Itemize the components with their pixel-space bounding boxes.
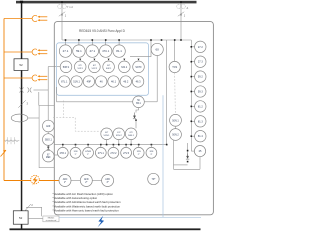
svg-text:47.1: 47.1	[89, 49, 95, 53]
function 81.4	[191, 131, 207, 142]
remote 52 breaker box	[13, 211, 28, 224]
function 59.1	[73, 45, 85, 57]
arrow up on VT2 wire	[180, 13, 182, 16]
svg-text:51N.1: 51N.1	[73, 81, 80, 84]
svg-text:2: 2	[31, 204, 33, 207]
voltage transformer T2	[177, 4, 186, 16]
close symbol	[186, 154, 189, 160]
svg-text:27.1: 27.1	[63, 49, 69, 53]
function 46	[96, 76, 107, 87]
function 27.1	[59, 45, 71, 57]
function AFD.1	[59, 175, 71, 187]
function SOTF	[133, 61, 145, 73]
svg-text:1*: 1*	[87, 154, 89, 156]
function AFD.3	[102, 175, 114, 187]
svg-text:AFD: AFD	[84, 178, 89, 181]
orange arrow at arrester	[1, 150, 7, 157]
svg-text:AFD: AFD	[63, 178, 68, 181]
wire voltage header bus	[62, 39, 191, 41]
function 60	[151, 43, 163, 55]
function AFD.2	[80, 175, 92, 187]
function 47.1	[86, 45, 98, 57]
bottom row stubs	[63, 145, 152, 148]
wire long vertical mid	[166, 40, 168, 145]
blue group box rows 1-3	[57, 43, 149, 96]
current transformer CT1 on feeder	[20, 88, 49, 106]
function TCS	[169, 61, 180, 72]
svg-text:1*: 1*	[64, 182, 66, 184]
function HIZ	[43, 120, 55, 132]
svg-text:67/: 67/	[79, 65, 82, 67]
function 27.3	[191, 56, 207, 67]
function 50N.2	[170, 129, 182, 141]
svg-text:81.1: 81.1	[116, 49, 122, 53]
arc flash lightning sensor	[31, 175, 40, 185]
node VT2 tap	[180, 1, 182, 3]
arc sensor S1	[4, 16, 47, 22]
sync close group wires	[174, 140, 201, 169]
function 50N.1	[170, 114, 182, 126]
function 50P.1	[60, 61, 72, 73]
svg-text:67/: 67/	[117, 132, 120, 134]
wire CT to relay row2	[48, 66, 60, 68]
function 27V.3	[121, 147, 132, 158]
wire right column spine	[190, 40, 192, 151]
svg-text:SOTF: SOTF	[135, 66, 142, 69]
voltage transformer T1	[58, 4, 67, 16]
nodes at sync group	[187, 150, 189, 152]
wire oval to sensor box	[28, 117, 39, 119]
bottom remote busbar	[10, 228, 201, 230]
function 67 MEF	[43, 150, 55, 162]
svg-text:2*: 2*	[138, 154, 140, 156]
svg-text:51P.1: 51P.1	[77, 68, 83, 70]
svg-text:50N.1: 50N.1	[128, 135, 135, 137]
surge arrester symbol	[5, 137, 20, 144]
function 50BF.1	[133, 96, 145, 108]
function 67 51N.2	[113, 128, 125, 140]
svg-text:AFD: AFD	[105, 178, 110, 181]
svg-text:HIZ: HIZ	[46, 124, 51, 128]
svg-text:27.2: 27.2	[198, 46, 203, 49]
function 59.3	[191, 86, 207, 97]
function SBO.1	[43, 134, 55, 146]
wire header drop left of 60	[130, 40, 151, 57]
function M2.1	[119, 61, 131, 73]
orange wire to AFD.1	[4, 180, 59, 182]
function 67 51P.2	[89, 61, 101, 73]
row1 stubs and nodes	[66, 40, 120, 45]
svg-text:46.2: 46.2	[123, 80, 129, 84]
wire VT2 drop	[180, 3, 182, 40]
wire 52 to remote label	[28, 218, 43, 220]
lower bus nodes	[62, 144, 168, 146]
function 27R.1	[57, 147, 68, 158]
trip symbol at sensor group	[47, 145, 50, 149]
svg-text:BF.1: BF.1	[136, 103, 141, 105]
svg-text:Y n d: Y n d	[67, 6, 73, 9]
function 67 51N.1	[101, 128, 113, 140]
arc sensor S2	[4, 49, 47, 55]
node VT1 tap	[61, 1, 63, 3]
function 59.2	[191, 71, 207, 82]
svg-text:81.2: 81.2	[198, 105, 203, 108]
svg-text:52: 52	[19, 63, 23, 67]
top busbar	[16, 1, 197, 4]
svg-text:59.1: 59.1	[76, 49, 82, 53]
function 32N.1	[70, 147, 81, 158]
svg-text:27R.1: 27R.1	[60, 152, 67, 155]
52 breaker box	[14, 59, 28, 71]
svg-text:RED615 V5.0 ANSI Func Appl D: RED615 V5.0 ANSI Func Appl D	[79, 29, 126, 33]
svg-text:2*: 2*	[85, 182, 87, 184]
svg-text:1*: 1*	[75, 154, 77, 156]
svg-text:51N.2: 51N.2	[116, 135, 123, 137]
svg-text:67/: 67/	[105, 132, 108, 134]
svg-text:81.3: 81.3	[198, 120, 203, 123]
svg-text:59.3: 59.3	[198, 91, 203, 94]
function 46.2	[120, 76, 131, 87]
wire VT1 drop	[61, 3, 63, 40]
arrow up on VT1 wire	[61, 13, 63, 16]
function 27V.2	[108, 147, 119, 158]
svg-text:46.3: 46.3	[136, 80, 142, 84]
svg-text:49F: 49F	[87, 80, 92, 84]
dashed wire blue box drop	[63, 101, 65, 118]
relay IED box RED615	[54, 22, 213, 215]
svg-text:1: 1	[184, 15, 186, 18]
wire CT secondary vertical	[47, 67, 49, 151]
feeder line	[21, 3, 23, 230]
svg-text:67/: 67/	[107, 65, 110, 67]
orange arc sensor riser	[3, 19, 5, 181]
wire 50BF down	[136, 108, 139, 113]
svg-text:27V.2: 27V.2	[110, 152, 117, 155]
svg-text:81.4: 81.4	[198, 135, 203, 138]
function 27.2	[191, 41, 207, 52]
function 32N.3	[146, 147, 157, 158]
function 25	[191, 146, 205, 157]
function 47U.1	[100, 45, 112, 57]
svg-text:3*: 3*	[150, 154, 152, 156]
wire AFD.1-AFD.2	[71, 180, 80, 182]
svg-text:at remote end: at remote end	[46, 219, 56, 222]
svg-text:51N.1: 51N.1	[104, 135, 111, 137]
function 81.3	[191, 116, 207, 127]
blue comm riser	[162, 95, 164, 217]
label 2 wires slash	[25, 204, 31, 211]
blue comm line	[59, 216, 201, 218]
trip symbol below 50BF	[133, 113, 136, 119]
svg-text:50P.1: 50P.1	[63, 65, 70, 69]
wire AFD.2-AFD.3	[92, 180, 101, 182]
function 81.2	[191, 101, 207, 112]
svg-text:67/: 67/	[130, 132, 133, 134]
row2 arrows	[79, 59, 139, 61]
svg-text:59.2: 59.2	[198, 76, 203, 79]
function 67 50P.1	[103, 61, 115, 73]
function 67 50N.1	[125, 128, 137, 140]
function 67 51P.1	[74, 61, 86, 73]
label 3 phase slash	[18, 100, 25, 107]
dashed wire TCS to 50N.1	[174, 73, 177, 115]
svg-text:47U.1: 47U.1	[102, 49, 110, 53]
svg-text:Δ: Δ	[187, 6, 189, 10]
remote end label box	[43, 216, 59, 222]
wire trip link upper	[26, 207, 42, 216]
svg-text:87L.1: 87L.1	[61, 81, 68, 84]
svg-text:* Available with Harmonic base: * Available with Harmonic based earth fa…	[53, 209, 120, 213]
function 87L.1	[59, 76, 70, 87]
wire 50BF feed from left	[57, 87, 133, 102]
svg-text:3: 3	[27, 102, 29, 106]
svg-text:27V.3: 27V.3	[123, 152, 130, 155]
function 81.1	[113, 45, 125, 57]
function 32N.2	[133, 147, 144, 158]
row4 stubs	[107, 140, 132, 145]
svg-text:79*: 79*	[151, 177, 155, 181]
svg-text:50N.2: 50N.2	[172, 134, 179, 137]
notes text	[53, 192, 121, 213]
wire 50N stub	[175, 126, 177, 128]
dashed wire hiz to row4	[53, 118, 101, 132]
svg-text:M2.1: M2.1	[121, 65, 127, 69]
sensor group box	[39, 106, 54, 168]
svg-text:27.3: 27.3	[198, 61, 203, 64]
function 67N.1	[83, 147, 94, 158]
svg-text:3*: 3*	[107, 182, 109, 184]
function 49F	[83, 76, 94, 87]
function 46.1	[108, 76, 119, 87]
svg-text:50N.1: 50N.1	[172, 119, 179, 122]
svg-text:52: 52	[19, 216, 23, 220]
svg-text:60: 60	[156, 48, 160, 52]
svg-text:SBO.1: SBO.1	[45, 139, 53, 142]
svg-text:51P.2: 51P.2	[92, 68, 98, 70]
svg-text:TCS: TCS	[172, 66, 177, 69]
node busbar-feeder junction	[20, 1, 23, 3]
svg-text:27V.1: 27V.1	[98, 152, 105, 155]
svg-text:50P.1: 50P.1	[106, 68, 112, 70]
svg-text:67/: 67/	[93, 65, 96, 67]
wire main lower bus	[54, 144, 166, 146]
arc sensor S3	[4, 75, 47, 81]
function 79	[148, 173, 159, 184]
wire 50BF to riser	[144, 101, 157, 103]
cable oval on feeder	[11, 114, 28, 122]
svg-text:MEF: MEF	[46, 157, 51, 159]
svg-text:46.1: 46.1	[111, 80, 117, 84]
function 27V.1	[95, 147, 106, 158]
comm lightning symbol	[98, 216, 105, 227]
svg-text:1: 1	[65, 15, 67, 18]
wire group box to bottom row	[54, 154, 58, 156]
function 46.3	[132, 76, 143, 87]
function 51N.1	[71, 76, 82, 87]
wire 60 riser down	[156, 56, 158, 102]
wire TCS drop	[174, 40, 176, 61]
